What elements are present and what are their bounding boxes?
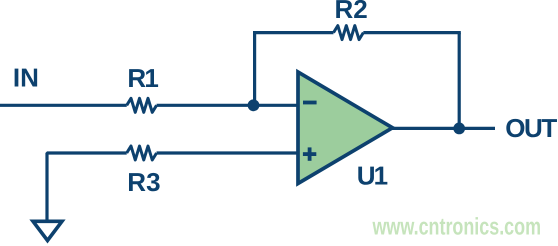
svg-text:R3: R3 [127, 167, 160, 197]
junction node B (output node) [453, 122, 465, 134]
wire: R2 to feedback right vertical [363, 31, 460, 34]
svg-text:R1: R1 [127, 63, 158, 93]
op-amp U1 non-inverting input marker (+) [303, 147, 316, 160]
resistor R2 [334, 26, 364, 40]
resistor R1 [127, 98, 157, 112]
wire: junction A to op-amp inverting input [254, 104, 299, 107]
wire: input net IN to resistor R1 [0, 104, 127, 107]
wire: feedback top, corner to resistor R2 [253, 31, 334, 34]
svg-text:R2: R2 [335, 0, 368, 24]
svg-text:U1: U1 [357, 161, 388, 191]
junction node A (inverting input node) [248, 99, 260, 111]
wire: op-amp non-inverting input to resistor R3 [157, 151, 298, 154]
resistor R3 [127, 146, 157, 160]
wire: R1 to junction node A [157, 104, 254, 107]
svg-text:OUT: OUT [505, 113, 557, 143]
wire: feedback left vertical from junction A up to R2 row [253, 33, 256, 106]
op-amp U1 inverting input marker (-) [303, 101, 317, 105]
svg-text:www.cntronics.com: www.cntronics.com [372, 214, 541, 241]
wire: junction B to OUT terminal [459, 127, 495, 130]
wire: feedback right vertical down to output node B [458, 33, 461, 129]
wire: R3 left to ground drop corner [47, 153, 127, 220]
wire: op-amp output to junction node B [392, 127, 459, 130]
svg-text:IN: IN [13, 63, 39, 93]
op-amp U1 body [298, 72, 393, 184]
ground symbol [33, 221, 62, 240]
